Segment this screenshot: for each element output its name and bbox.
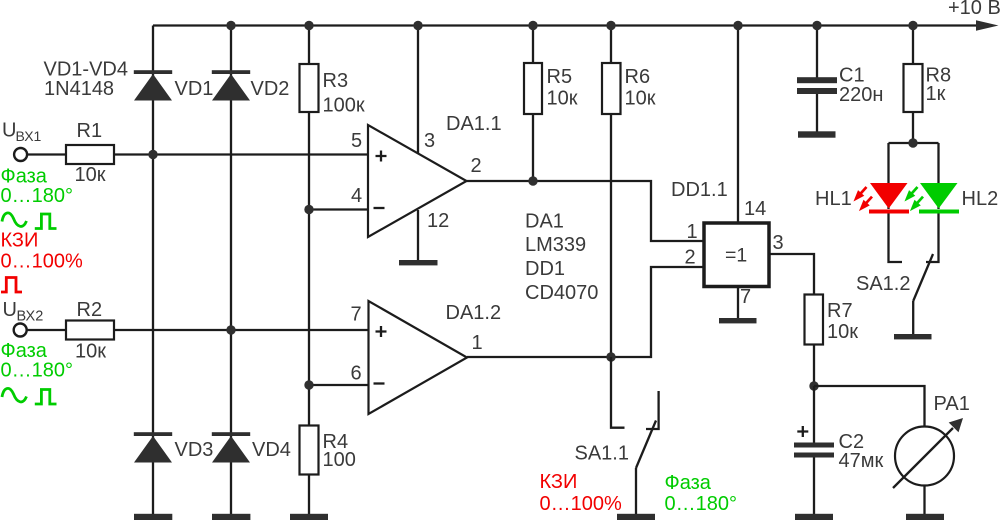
svg-text:100: 100 xyxy=(323,449,356,471)
resistor R1 xyxy=(66,145,114,164)
svg-text:0…100%: 0…100% xyxy=(1,251,83,273)
svg-text:U: U xyxy=(2,120,16,142)
node rail-VD2 xyxy=(226,21,235,30)
wire R6 column xyxy=(610,26,612,358)
node rail-R5 xyxy=(528,21,537,30)
wire R5 column xyxy=(532,26,534,182)
wire R3/R4 column xyxy=(308,26,310,515)
svg-text:1N4148: 1N4148 xyxy=(44,78,114,100)
ground C1 xyxy=(798,131,836,137)
HL2 emission arrows xyxy=(901,184,926,214)
PA1 arrow xyxy=(893,428,953,488)
svg-text:6: 6 xyxy=(351,363,362,385)
wire node to PA1 xyxy=(814,386,925,427)
resistor R6 xyxy=(602,63,621,114)
icon pulse red xyxy=(1,278,22,293)
wire DA1.1 pin3 supply xyxy=(417,26,419,154)
svg-text:ВХ2: ВХ2 xyxy=(17,309,44,325)
svg-text:7: 7 xyxy=(351,304,362,326)
capacitor C1 xyxy=(797,77,837,94)
HL1 emission arrows xyxy=(850,184,875,214)
wire DA1.2 minus input xyxy=(309,384,369,386)
op-amp DA1.1 xyxy=(368,125,467,237)
wire C2 to ground xyxy=(813,458,815,515)
svg-text:220н: 220н xyxy=(839,84,883,106)
svg-text:VD3: VD3 xyxy=(175,439,214,461)
resistor R2 xyxy=(66,321,114,340)
node rail-C1 xyxy=(812,21,821,30)
plus sign C2 xyxy=(797,426,808,437)
resistor R8 xyxy=(904,64,923,112)
svg-text:HL1: HL1 xyxy=(815,188,852,210)
svg-text:R5: R5 xyxy=(547,66,573,88)
svg-text:PA1: PA1 xyxy=(934,393,970,415)
svg-text:0…100%: 0…100% xyxy=(540,493,622,515)
wire DA1.1 output xyxy=(467,181,705,241)
wire DD1 pin14 supply xyxy=(737,26,739,224)
svg-text:КЗИ: КЗИ xyxy=(540,471,578,493)
svg-text:14: 14 xyxy=(744,198,766,220)
icon sine green 2 xyxy=(2,388,27,402)
wire R7 to node xyxy=(813,345,815,387)
LED HL2 xyxy=(919,183,959,214)
diode VD3 xyxy=(134,432,172,462)
svg-text:47мк: 47мк xyxy=(839,450,884,472)
wire VD2/VD4 column xyxy=(230,26,232,515)
node rail-R8 xyxy=(908,21,917,30)
plus sign DA1.1 xyxy=(376,151,387,162)
node rail-R6 xyxy=(606,21,615,30)
svg-text:1к: 1к xyxy=(926,83,946,105)
svg-text:10к: 10к xyxy=(75,341,106,363)
ground SA1.2 xyxy=(894,334,932,339)
svg-text:ВХ1: ВХ1 xyxy=(16,128,42,144)
icon pulse green 1 xyxy=(35,214,57,229)
node R4 minus xyxy=(304,380,313,389)
ground VD4 xyxy=(212,514,250,520)
switch SA1.2 xyxy=(913,254,933,334)
wire C1 bottom xyxy=(816,93,818,132)
wire HL1 branch xyxy=(889,143,903,262)
node R6 output xyxy=(606,352,615,361)
wire R2 to DA1.2 + xyxy=(114,329,369,331)
svg-text:R2: R2 xyxy=(77,299,103,321)
svg-text:VD2: VD2 xyxy=(251,78,290,100)
svg-text:0…180°: 0…180° xyxy=(665,493,738,515)
svg-text:SA1.1: SA1.1 xyxy=(575,443,629,465)
svg-text:3: 3 xyxy=(424,130,435,152)
svg-text:0…180°: 0…180° xyxy=(1,360,74,382)
wire VD1/VD3 column xyxy=(152,26,154,515)
svg-text:DA1: DA1 xyxy=(525,211,564,233)
wire PA1 to ground xyxy=(923,486,925,515)
wire DA1.2 output xyxy=(467,267,704,357)
svg-text:R1: R1 xyxy=(77,120,103,142)
svg-text:+10 В: +10 В xyxy=(948,0,1000,19)
resistor R3 xyxy=(300,64,319,112)
node rail-pin3 xyxy=(413,21,422,30)
wire DA1.1 pin12 to ground xyxy=(417,210,419,260)
+10V arrow head xyxy=(976,20,999,31)
svg-text:VD1: VD1 xyxy=(175,78,214,100)
svg-text:1: 1 xyxy=(687,221,698,243)
wire HL2 branch xyxy=(926,143,939,262)
wire node to C2 xyxy=(813,386,815,443)
svg-text:1: 1 xyxy=(472,332,483,354)
svg-text:R3: R3 xyxy=(323,70,349,92)
resistor R7 xyxy=(805,295,824,345)
node R2/VD2 xyxy=(226,325,235,334)
svg-text:HL2: HL2 xyxy=(962,188,999,210)
ground PA1 xyxy=(906,514,944,520)
ground DA1.1 xyxy=(399,260,438,265)
svg-text:DA1.1: DA1.1 xyxy=(446,113,502,135)
svg-text:CD4070: CD4070 xyxy=(525,282,598,304)
wire UBX1 to R1 xyxy=(27,153,66,155)
wire DD1 pin7 ground xyxy=(737,287,739,319)
input terminal U_BX2 xyxy=(14,324,27,337)
node rail-pin14 xyxy=(733,21,742,30)
svg-text:4: 4 xyxy=(351,185,362,207)
resistor R5 xyxy=(524,63,542,114)
ground DD1 xyxy=(719,318,757,323)
XOR gate DD1.1 xyxy=(704,223,769,287)
svg-text:0…180°: 0…180° xyxy=(1,185,74,207)
svg-text:3: 3 xyxy=(773,232,784,254)
plus sign DA1.2 xyxy=(376,326,387,337)
svg-text:Фаза: Фаза xyxy=(665,472,712,494)
svg-text:5: 5 xyxy=(351,130,362,152)
input terminal U_BX1 xyxy=(14,148,27,161)
svg-text:100к: 100к xyxy=(323,95,365,117)
svg-text:=1: =1 xyxy=(725,245,747,267)
node R8/LEDs xyxy=(908,138,917,147)
svg-text:12: 12 xyxy=(427,210,449,232)
diode VD1 xyxy=(134,70,172,100)
svg-text:DA1.2: DA1.2 xyxy=(446,302,502,324)
diode VD2 xyxy=(212,70,250,100)
switch SA1.1 xyxy=(611,357,659,514)
LED HL1 xyxy=(869,183,909,214)
node rail-R3 xyxy=(304,21,313,30)
svg-text:U: U xyxy=(3,299,17,321)
ground R4 xyxy=(290,514,328,520)
svg-text:DD1: DD1 xyxy=(525,258,565,280)
meter PA1 xyxy=(895,427,954,486)
wire UBX2 to R2 xyxy=(27,329,66,331)
icon pulse green 2 xyxy=(35,390,57,405)
svg-text:7: 7 xyxy=(740,286,751,308)
node R1/VD1 xyxy=(148,150,157,159)
minus sign DA1.2 xyxy=(374,382,385,384)
svg-text:КЗИ: КЗИ xyxy=(1,230,39,252)
ground C2 xyxy=(795,514,833,520)
wire R8 column xyxy=(912,26,914,144)
node R3 minus xyxy=(304,205,313,214)
wire C1 top xyxy=(816,26,818,79)
op-amp DA1.2 xyxy=(369,301,468,414)
svg-text:10к: 10к xyxy=(827,321,858,343)
resistor R4 xyxy=(300,426,319,475)
minus sign DA1.1 xyxy=(374,207,385,209)
capacitor C2 xyxy=(794,443,834,458)
ground VD3 xyxy=(134,514,172,520)
svg-text:VD4: VD4 xyxy=(252,439,291,461)
wire R8 to LED bridge xyxy=(889,142,939,144)
diode VD4 xyxy=(212,432,250,462)
svg-text:LM339: LM339 xyxy=(525,234,586,256)
svg-text:10к: 10к xyxy=(75,164,106,186)
svg-text:10к: 10к xyxy=(625,88,656,110)
wire DD1 pin3 to R7 xyxy=(769,254,814,295)
node R7/C2/PA1 xyxy=(809,381,818,390)
svg-text:SA1.2: SA1.2 xyxy=(856,273,910,295)
wire +10V top rail xyxy=(153,24,977,26)
wire DA1.1 minus input xyxy=(309,208,368,210)
svg-text:2: 2 xyxy=(685,247,696,269)
icon sine green 1 xyxy=(2,213,27,227)
node R5 output xyxy=(528,176,537,185)
svg-text:2: 2 xyxy=(471,155,482,177)
svg-text:DD1.1: DD1.1 xyxy=(671,179,728,201)
wire R1 to DA1.1 + xyxy=(114,153,368,155)
ground SA1.1 xyxy=(617,514,655,520)
svg-text:10к: 10к xyxy=(547,88,578,110)
svg-text:R6: R6 xyxy=(625,66,651,88)
svg-text:R7: R7 xyxy=(827,300,853,322)
